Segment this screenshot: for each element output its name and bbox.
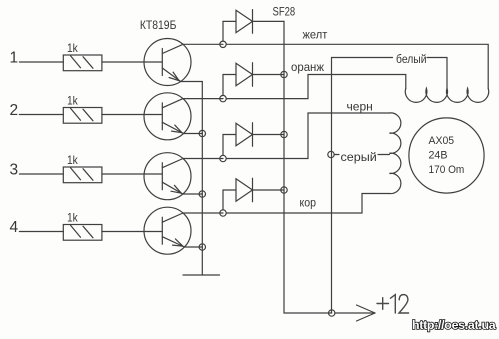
motor M1 AX05 (circle) (409, 118, 484, 193)
wire серый: junction to label (334, 154, 339, 156)
svg-text:170 Om: 170 Om (429, 164, 465, 176)
wire emitter Q3 to emitter bus (183, 193, 202, 195)
resistor R3 1k (63, 167, 102, 183)
resistor R1 1k (63, 55, 102, 71)
wire белый: riser top to label (left segment) (332, 57, 393, 59)
wire +12 arrow shaft (335, 312, 375, 314)
wire collector Q4 to node (183, 212, 223, 214)
diode VD4 SF28 (223, 178, 284, 210)
wire emitter Q4 to emitter bus (184, 246, 202, 248)
resistor R2 1k (63, 108, 102, 124)
svg-text:1k: 1k (67, 153, 79, 167)
transistor Q1 (КТ819Б NPN) (144, 39, 191, 86)
inductor phase-B winding L2 (черн-серый-кор) (389, 113, 400, 194)
wire emitter Q1 to emitter bus (181, 81, 203, 83)
svg-text:http://oes.at.ua: http://oes.at.ua (412, 318, 496, 332)
svg-text:1k: 1k (67, 211, 79, 225)
wire collector Q2 to node (183, 98, 223, 100)
wire R3 to base of Q3 (102, 173, 162, 175)
wire +12 rail (bottom) (284, 312, 332, 314)
junction diode VD3 cathode on +12 bus (281, 131, 287, 137)
diode VD1 SF28 (223, 10, 284, 42)
junction серый center tap on riser (328, 151, 334, 157)
svg-text:1k: 1k (67, 94, 79, 108)
wire R2 to base of Q2 (102, 114, 162, 116)
ground bar (common) (183, 274, 220, 276)
junction diode VD4 cathode on +12 bus (281, 187, 287, 193)
junction collector node 3 (220, 155, 226, 161)
wire R4 to base of Q4 (102, 231, 162, 233)
wire R1 to base of Q1 (102, 61, 162, 63)
wire collector Q3 to node (183, 158, 223, 160)
junction emitter Q4 on emitter bus (199, 244, 205, 250)
svg-text:черн: черн (347, 100, 373, 113)
svg-text:1: 1 (10, 50, 19, 67)
junction collector node 4 (220, 210, 226, 216)
wire черн: collector3 to phase-B coil top end (226, 113, 389, 159)
wire белый: drop to phase-A coil center tap (446, 58, 448, 89)
wire оранж: collector2 to phase-A coil left end (226, 75, 406, 99)
svg-text:SF28: SF28 (273, 5, 296, 19)
wire emitter Q2 to emitter bus (184, 133, 203, 135)
wire input 3 to resistor R3 (19, 173, 63, 175)
junction emitter Q2 on emitter bus (199, 130, 205, 136)
svg-text:белый: белый (396, 53, 427, 66)
wire белый: label to coil tap (right segment) (427, 57, 447, 59)
junction collector node 2 (220, 95, 226, 101)
wire input 4 to resistor R4 (19, 231, 63, 233)
svg-text:2: 2 (10, 102, 19, 119)
svg-text:КТ819Б: КТ819Б (140, 18, 177, 32)
inductor phase-A winding L1 (желт-белый-оранж) (405, 88, 488, 102)
power label +12 (stroke glyphs) (377, 295, 409, 313)
svg-text:4: 4 (10, 219, 19, 236)
transistor Q2 (КТ819Б NPN) (144, 93, 191, 140)
svg-text:оранж: оранж (291, 61, 324, 74)
resistor R4 1k (63, 225, 102, 241)
wire input 1 to resistor R1 (19, 61, 63, 63)
transistor Q4 (КТ819Б NPN) (144, 207, 191, 254)
svg-text:AX05: AX05 (429, 135, 455, 147)
wire center-tap riser (белый/серый to +12) (331, 58, 333, 314)
diode VD3 SF28 (223, 123, 284, 156)
svg-text:кор: кор (300, 197, 317, 210)
diode VD2 SF28 (223, 63, 284, 96)
svg-text:желт: желт (303, 29, 328, 42)
wire input 2 to resistor R2 (19, 114, 63, 116)
svg-text:1k: 1k (67, 41, 79, 55)
junction +12 node (329, 310, 335, 316)
wire желт: collector1 to phase-A coil right end (226, 44, 488, 88)
junction collector node 1 (220, 41, 226, 47)
svg-text:3: 3 (10, 162, 19, 179)
wire серый: label to phase-B coil center tap (378, 154, 389, 156)
power +12 arrowhead (357, 305, 376, 321)
wire +12 diode-cathode bus (vertical) (283, 21, 285, 313)
wire collector Q1 to node (183, 43, 223, 45)
wire кор: collector4 to phase-B coil bottom end (226, 194, 389, 214)
svg-text:серый: серый (341, 151, 377, 164)
svg-text:24В: 24В (429, 150, 448, 162)
transistor Q3 (КТ819Б NPN) (144, 153, 191, 200)
junction diode VD2 cathode on +12 bus (281, 71, 287, 77)
junction emitter Q3 on emitter bus (199, 191, 205, 197)
wire emitter bus (vertical) (201, 82, 203, 276)
